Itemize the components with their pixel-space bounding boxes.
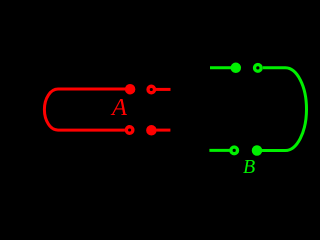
wire: green top rail [210, 66, 232, 69]
terminal (open circle) on red bottom rail [126, 127, 133, 134]
terminal (open circle) on red top rail [148, 86, 155, 93]
wire: red top stub [156, 88, 171, 91]
wire: green hairpin B (top stub, right U-turn, bottom run) [262, 68, 306, 151]
wire: red bottom stub [157, 129, 171, 132]
svg-text:A: A [110, 94, 128, 121]
contact dot (filled) on red top rail [125, 84, 136, 95]
contact dot (filled) on green bottom rail [252, 145, 263, 156]
wire: green bottom rail [209, 149, 231, 152]
terminal (open circle) on green top rail [255, 65, 262, 72]
contact dot (filled) on red bottom rail [146, 125, 157, 136]
terminal (open circle) on green bottom rail [231, 147, 238, 154]
contact dot (filled) on green top rail [231, 63, 242, 74]
wire: red hairpin A (top rail, left U-turn, bottom rail) [44, 89, 130, 130]
svg-text:B: B [243, 156, 255, 174]
